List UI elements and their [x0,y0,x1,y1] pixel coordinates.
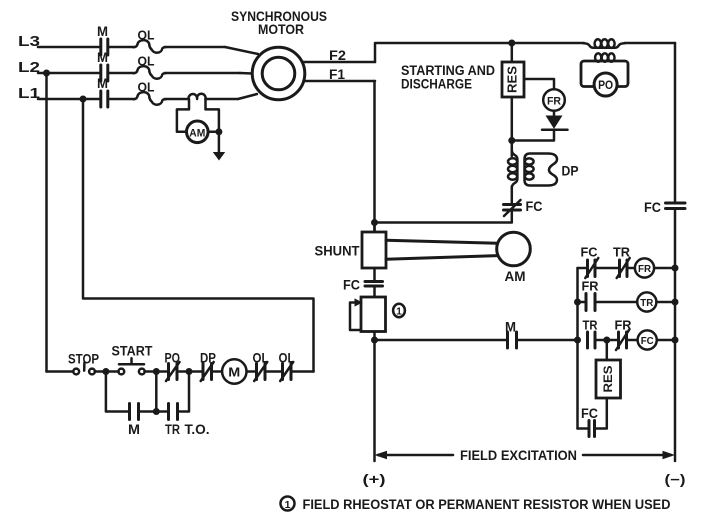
wire L2 drop [45,73,48,372]
svg-text:AM: AM [505,268,526,284]
svg-text:FC: FC [526,199,543,214]
svg-text:M: M [97,24,108,39]
junction diode return [508,137,515,144]
svg-text:RES: RES [601,366,615,393]
junction L1 tap [80,96,87,103]
wire top rail [375,43,675,62]
contact OL normally-closed (1) [253,351,269,382]
svg-text:FC: FC [581,406,598,421]
synchronous motor [231,8,327,100]
svg-text:TR: TR [583,318,599,333]
row 1: contact FC normally-closed [578,245,599,279]
svg-text:OL: OL [138,80,155,95]
junction row3 right [672,337,679,344]
contact M (L1 pole) [97,76,108,107]
svg-text:OL: OL [138,54,155,69]
wire FR branch [524,79,554,90]
wire to ground [218,132,221,153]
wire field rail to (+) [373,340,376,461]
wire shunt to AM loop [386,240,498,259]
svg-text:RES: RES [506,66,520,93]
svg-text:FC: FC [343,278,360,293]
wire relay ladder left rail [576,268,579,429]
svg-text:T.O.: T.O. [185,422,210,437]
svg-text:M: M [128,422,140,437]
row 3: contact TR normally-open [583,318,599,349]
row 2: contact FR normally-open [578,279,600,311]
svg-text:FC: FC [644,200,661,215]
svg-text:1: 1 [285,499,291,511]
wire left field rail [373,81,376,232]
overload heater OL (L2 pole) [134,54,166,79]
svg-text:PO: PO [165,351,181,366]
svg-text:TR: TR [640,297,653,309]
field excitation arrow [375,448,676,463]
capacitor FC (right rail) [644,200,685,215]
relay PO (power factor / pull-out) [581,53,628,96]
contact PO normally-closed [165,351,181,382]
svg-text:FC: FC [581,245,599,260]
wire L1 [38,94,257,99]
capacitor FC (below shunt) [343,268,383,293]
contact M normally-open (seal-in) [128,404,140,438]
inductor DP coil [508,151,517,188]
junction field rail bottom [371,337,378,344]
wire FC contact to field rail [375,210,512,223]
overload heater OL (L1 pole) [134,80,166,105]
svg-text:TR: TR [165,422,180,437]
relay coil TR (row 2) [595,292,675,311]
svg-text:FIELD EXCITATION: FIELD EXCITATION [460,448,577,463]
svg-text:AM: AM [189,127,205,139]
wire CT secondary [177,99,219,132]
contact DP normally-closed [200,351,216,382]
capacitor FC (snubber) [578,398,607,437]
contact M (L3 pole) [97,24,108,55]
wire row 3 [595,339,618,342]
svg-text:START: START [112,344,154,359]
junction L2 tap [43,70,50,77]
svg-text:OL: OL [279,351,295,366]
svg-text:M: M [97,76,108,91]
wire right rail lower [674,209,677,462]
junction top rail / RES [508,40,515,47]
DP armature core [525,154,579,186]
wire diode return [512,130,554,141]
contact M normally-open (field) [505,320,517,349]
wire F1 [304,66,376,82]
junction field rail / discharge branch [371,219,378,226]
svg-text:(−): (−) [665,472,686,487]
junction row3 left [574,337,581,344]
svg-text:F2: F2 [329,47,346,63]
svg-text:OL: OL [138,28,155,43]
wire bottom row [375,339,578,342]
row 1: contact TR normally-closed [595,245,631,279]
pushbutton STOP [68,352,99,375]
overload heater OL (L3 pole) [134,28,166,53]
note marker 1 [281,497,295,511]
resistor RES (snubber) [596,340,621,398]
contact TR T.O. normally-open [165,404,210,438]
contact OL normally-closed (2) [279,351,295,382]
relay coil FR (row 1) [627,258,675,277]
resistor RES (starting and discharge) [502,43,524,97]
control rung wire [47,370,314,373]
contact M (L2 pole) [97,50,108,81]
ammeter AM (field) [497,232,531,284]
svg-text:FR: FR [615,318,633,333]
svg-text:DP: DP [562,163,579,179]
svg-text:L1: L1 [18,85,40,102]
wire F2 [302,47,375,63]
junction row1 right [672,265,679,272]
svg-text:FC: FC [641,335,654,347]
rheostat (field) [350,286,386,340]
shunt field SHUNT [315,223,387,269]
svg-text:FR: FR [638,263,651,275]
relay coil FR (field relay) [543,89,565,111]
coil M (starter) [222,359,246,383]
svg-text:1: 1 [396,306,402,317]
label STARTING AND DISCHARGE [401,63,495,92]
svg-text:FIELD RHEOSTAT OR PERMANENT RE: FIELD RHEOSTAT OR PERMANENT RESISTOR WHE… [303,497,671,512]
wire RES to DP coil [511,97,514,156]
relay coil FC (row 3) [627,330,676,349]
wire L3 [38,47,258,54]
junction PO bypass right [186,368,193,375]
wire seal-in branch [106,372,189,412]
svg-text:F1: F1 [329,66,345,82]
svg-text:M: M [228,365,240,380]
junction row2 right [672,299,679,306]
row 3: contact FR normally-closed [615,318,633,351]
junction AM-ground [215,128,222,135]
wire DP to FC contact [511,187,514,203]
junction row3 snubber [603,337,610,344]
inductor PO primary [584,39,625,48]
svg-text:FR: FR [582,279,600,294]
svg-text:SHUNT: SHUNT [315,243,360,259]
junction row2 left [574,299,581,306]
svg-text:L3: L3 [18,33,40,50]
note marker 1 (rheostat) [393,304,405,318]
svg-text:DP: DP [200,351,216,366]
svg-text:(+): (+) [363,472,386,487]
junction TR bypass left [153,368,160,375]
svg-text:M: M [97,50,108,65]
ground [213,152,225,161]
ammeter AM (line) [187,121,209,143]
current transformer CT on L1 [189,94,206,99]
contact FC normally-closed (discharge path) [504,199,543,216]
wire L1 drop [83,99,314,372]
svg-text:TR: TR [613,245,631,260]
svg-text:MOTOR: MOTOR [258,21,304,37]
svg-text:PO: PO [598,80,613,92]
svg-text:OL: OL [253,351,269,366]
wire L2 [38,72,253,75]
svg-text:STOP: STOP [68,352,99,367]
wire right rail upper [674,43,677,203]
svg-text:FR: FR [547,95,561,107]
diode [542,111,568,130]
junction seal-in / TR branch [153,408,160,415]
pushbutton START [112,344,154,375]
svg-text:M: M [505,320,516,335]
junction seal-in left [102,368,109,375]
svg-text:DISCHARGE: DISCHARGE [401,77,472,92]
svg-text:L2: L2 [18,59,40,76]
